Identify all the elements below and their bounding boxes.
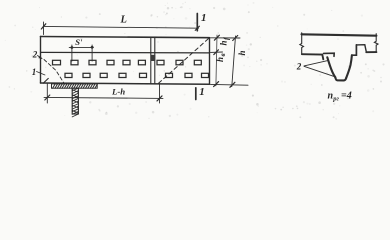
label hf (rotated) — [219, 37, 231, 46]
svg-text:L-h: L-h — [111, 87, 125, 97]
beam top edge — [41, 37, 210, 38]
dimension L: right tick — [195, 26, 199, 30]
cross-section left slab bottom — [302, 54, 323, 59]
svg-text:1: 1 — [201, 12, 207, 24]
dim line hf/hv — [216, 35, 217, 86]
tick at beam bottom / L-h extension crossing — [43, 78, 48, 83]
cross-section left break line — [300, 33, 304, 54]
holes row 2 — [65, 73, 209, 77]
section mark 1 bottom — [195, 88, 197, 100]
svg-text:=4: =4 — [341, 91, 352, 102]
label hv (rotated) — [215, 53, 227, 62]
dimension L: line — [43, 26, 198, 28]
right dims: bottom extension — [211, 83, 249, 86]
support stem hatched — [72, 88, 78, 117]
rib right shelf — [352, 45, 357, 55]
beam flange bottom line — [41, 51, 210, 54]
ticks on hf/hv line — [214, 35, 219, 40]
rib left ledge — [324, 53, 335, 56]
svg-text:в: в — [219, 53, 227, 56]
svg-text:h: h — [215, 57, 225, 62]
svg-text:1: 1 — [199, 86, 205, 98]
svg-text:2: 2 — [32, 50, 38, 60]
label 1 leader — [37, 72, 46, 76]
svg-text:2: 2 — [296, 62, 302, 72]
paper background — [0, 0, 390, 122]
beam right edge — [209, 38, 211, 85]
svg-text:h: h — [219, 40, 229, 45]
label 2 leader — [38, 56, 43, 59]
right dims: middle extension — [211, 51, 223, 53]
section mark 1 top — [196, 14, 198, 31]
cross-section right slab bottom — [366, 51, 376, 53]
svg-text:L: L — [120, 14, 127, 25]
support pad hatched — [52, 84, 98, 88]
cross-section right break line — [374, 34, 378, 52]
dimension L-h: left tick — [45, 95, 50, 100]
rib left wall — [327, 57, 335, 77]
svg-text:1: 1 — [32, 67, 37, 77]
holes row 1 — [53, 60, 202, 65]
ticks on h line — [233, 36, 238, 41]
rib right wall — [346, 55, 352, 77]
label h (rotated) — [237, 50, 247, 55]
dimension L: left tick — [41, 24, 46, 29]
paper speckle noise — [5, 2, 385, 120]
dimension S': end dots — [71, 46, 74, 49]
dimension S': line — [69, 46, 93, 48]
dashed diagonal — [159, 38, 210, 84]
panel joint double line — [150, 37, 152, 83]
dimension L: extension line — [43, 22, 45, 35]
dimension L-h: right tick — [157, 96, 162, 101]
dimension L-h: line — [44, 97, 163, 98]
svg-text:рг: рг — [332, 96, 339, 103]
dashed leader to pad — [44, 60, 65, 85]
right dims: top extension — [211, 37, 241, 39]
joint weld blob — [151, 55, 156, 61]
rib right shoulder — [356, 45, 366, 52]
cross-section flange top — [302, 34, 377, 35]
beam left edge — [40, 37, 42, 84]
beam bottom edge — [41, 83, 210, 84]
dimension L-h: right extension — [159, 84, 161, 103]
rib bottom — [335, 77, 346, 80]
dimension L-h: left extension — [46, 83, 48, 103]
dimension S': extensions — [71, 45, 73, 61]
label 2 leaders (section) — [304, 60, 334, 76]
dim line h — [232, 36, 236, 87]
